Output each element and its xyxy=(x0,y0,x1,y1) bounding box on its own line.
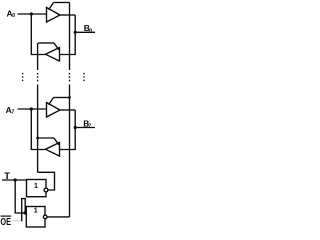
wire U4 enable diagonal xyxy=(54,138,59,145)
svg-text:OE: OE xyxy=(0,217,11,228)
wire U4 enable horizontal xyxy=(38,137,54,139)
wire B0 rail vertical xyxy=(60,15,76,55)
wire G2 output to EN-B rail xyxy=(47,216,70,218)
svg-text:7: 7 xyxy=(11,109,14,115)
node B0 junction xyxy=(74,31,77,34)
wire U1 output to B rail xyxy=(60,14,75,16)
wire OE stub (faint) xyxy=(12,220,22,222)
node A0 label xyxy=(7,9,16,20)
wire A7 loop vertical xyxy=(31,109,45,150)
node EN-A rail junction xyxy=(36,137,39,140)
svg-text:1: 1 xyxy=(34,183,38,190)
wire enable rail EN-A upper segment xyxy=(37,43,39,70)
wire U1 enable horizontal xyxy=(54,2,70,4)
ellipsis column EN-A rail xyxy=(37,73,38,81)
svg-text:7: 7 xyxy=(88,124,91,130)
node B7 label xyxy=(83,120,91,130)
wire enable rail EN-A mid segment xyxy=(37,85,39,173)
svg-text:1: 1 xyxy=(34,207,38,214)
node T label xyxy=(4,171,10,182)
wire enable rail EN-B mid segment xyxy=(69,85,71,218)
buffer U2 (B0 to A0, pointing left) xyxy=(46,48,60,62)
node B7 junction xyxy=(74,126,77,129)
node A7 label xyxy=(6,105,15,116)
svg-text:0: 0 xyxy=(12,13,15,19)
wire U2 enable diagonal xyxy=(54,43,59,50)
wire T input xyxy=(2,179,27,181)
gate G1 output bubble xyxy=(44,188,48,192)
buffer U3 (A7 to B7, pointing right) xyxy=(47,103,61,118)
ellipsis column EN-B rail xyxy=(69,73,70,81)
gate G1 (buffer 1, T) xyxy=(27,180,47,197)
wire U3 enable diagonal xyxy=(49,98,54,105)
wire B7 output xyxy=(75,127,95,129)
svg-text:0: 0 xyxy=(89,28,92,34)
node EN-B rail junction xyxy=(68,96,71,99)
gate G2 output bubble xyxy=(43,215,47,219)
node A7 junction xyxy=(30,107,33,110)
wire B0 output xyxy=(75,31,95,33)
ellipsis column B side xyxy=(83,73,84,81)
node B0 label xyxy=(84,23,92,35)
wire U1 enable diagonal xyxy=(49,3,54,10)
wire A0 loop vertical xyxy=(31,14,45,55)
wire B7 rail vertical xyxy=(60,110,76,150)
buffer U4 (B7 to A7, pointing left) xyxy=(46,143,60,157)
wire G1 output xyxy=(38,172,55,190)
node gate2 input junction xyxy=(23,211,26,214)
wire A0 input xyxy=(18,13,47,15)
buffer U1 (A0 to B0, pointing right) xyxy=(47,8,61,23)
wire U3 enable horizontal xyxy=(54,97,70,99)
ellipsis column A side xyxy=(22,73,23,81)
node OE label xyxy=(0,216,11,228)
wire OE branch up xyxy=(22,199,26,222)
wire U3 output to B rail xyxy=(60,109,75,111)
node A0 junction xyxy=(30,12,33,15)
wire U2 enable horizontal xyxy=(38,42,54,44)
wire T branch down xyxy=(15,180,26,213)
wire A7 input xyxy=(18,108,47,110)
gate G2 (buffer 1, OE) xyxy=(26,207,45,228)
node T junction xyxy=(14,178,17,181)
wire enable rail EN-B upper segment xyxy=(69,3,71,71)
